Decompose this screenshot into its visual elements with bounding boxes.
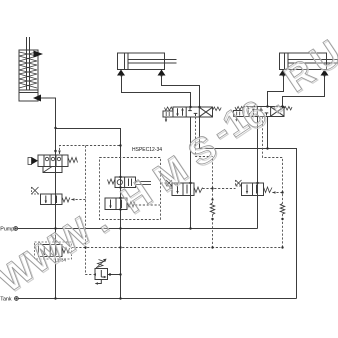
drain arrow below V2 left solenoid <box>235 117 237 122</box>
node valve A inlet <box>54 150 56 152</box>
solenoid (valve V2 left) <box>234 111 244 117</box>
node V1 port B <box>198 106 200 108</box>
orifice (LS section 2) <box>280 204 284 215</box>
svg-text:Tank: Tank <box>0 297 12 303</box>
flow regulator FR (circle valve in manifold) <box>115 177 151 188</box>
svg-text:Pump: Pump <box>0 226 14 232</box>
wire branch to manifold inlet <box>56 129 121 178</box>
junction pump rail / gallery <box>119 227 121 229</box>
dashed pilot network <box>60 117 283 275</box>
spring (lower valve right) <box>127 202 135 208</box>
spring (valve C right) <box>62 248 70 254</box>
junction LS / compensator K2 spring pilot <box>281 191 283 193</box>
port arrow (cylinder CYL3 right) <box>321 70 329 76</box>
tank port symbol <box>15 297 19 301</box>
node compensator K1 top port <box>189 182 191 184</box>
LS jog valve V2 <box>263 117 283 204</box>
LS jog valve V1 <box>196 117 213 203</box>
valve C (LS unloading valve, bottom-left) <box>39 245 63 257</box>
junction relief output <box>109 273 111 275</box>
cylinder CYL2 (horizontal, top-middle) <box>118 53 177 70</box>
wire V2 P-port through compensator K2 to pump rail <box>257 117 259 229</box>
port arrow (cylinder CYL1 bottom) <box>33 95 41 102</box>
dashed enclosure (valve C) <box>35 242 72 259</box>
spring (valve V1 left) <box>165 107 174 111</box>
junction LS bus / gallery <box>119 246 121 248</box>
spring (valve A right) <box>68 158 78 163</box>
watermark WWW.HMS-16.RU <box>0 32 338 301</box>
main vertical line (manifold P/T gallery) <box>120 177 122 299</box>
node flow regulator bottom port <box>119 186 121 188</box>
junction LS / compensator pilot <box>211 187 213 189</box>
junction pump rail / inlet line <box>54 227 56 229</box>
cylinder CYL3 (horizontal, top-right) <box>280 53 338 70</box>
pilot X bracket (valve B) <box>32 187 41 194</box>
pilot X bracket (compensator K2) <box>236 180 242 186</box>
spring (compensator K2 right) <box>264 187 273 193</box>
port arrow (cylinder CYL1 top) <box>34 51 44 58</box>
junction tank rail / inlet line <box>54 297 56 299</box>
node CYL3 rod port <box>323 74 325 76</box>
pilot line left vertical <box>86 146 94 275</box>
valve V2 (4/3 solenoid directional valve, section 2) <box>244 107 284 117</box>
pump rail <box>18 228 258 230</box>
node V1 port A <box>189 106 191 108</box>
wire CYL3 B-port to valve V2 <box>283 76 325 107</box>
cylinder CYL1 (vertical, top-left) <box>19 37 38 101</box>
wire V1 P-port through compensator K1 to pump rail <box>190 117 192 229</box>
pilot X bracket (compensator K1) <box>166 180 172 186</box>
valve V1 (4/3 solenoid directional valve, section 1) <box>173 107 213 117</box>
wire CYL3 A-port to valve V2 <box>268 76 284 107</box>
svg-text:HSPEC12-34: HSPEC12-34 <box>132 147 162 153</box>
spring (valve V2 left) <box>235 107 244 111</box>
solenoid (valve V1 left) <box>163 111 173 117</box>
port arrow (cylinder CYL2 left) <box>117 70 125 76</box>
pilot comp K1 to comp K2 <box>203 188 236 190</box>
junction LS section1 lower <box>211 218 213 220</box>
spring (valve B right) <box>62 197 70 202</box>
junction LS section2 lower <box>281 218 283 220</box>
tank rail <box>19 298 297 300</box>
LS line section1 lower <box>212 215 214 248</box>
wire V1 T-port to tank header <box>200 117 297 299</box>
valve B (inlet 2-way valve) <box>41 194 63 205</box>
port arrow (cylinder CYL3 left) <box>279 70 287 76</box>
pilot lower valve LV to box edge <box>135 204 160 206</box>
node lower valve bottom port <box>119 208 121 210</box>
manifold dashed box A <box>100 158 161 220</box>
compensator K2 (section 2) <box>242 183 264 196</box>
drain (relief valve) <box>95 280 102 285</box>
port arrow (cylinder CYL2 right) <box>158 70 166 76</box>
node V2 port A <box>266 105 268 107</box>
wire CYL2 A-port to valve V1 <box>122 76 191 108</box>
node flow regulator top port <box>119 176 121 178</box>
junction LS bus end / section2 LS <box>281 246 283 248</box>
node CYL2 rod port <box>160 74 162 76</box>
compensator K1 (section 1) <box>172 183 194 196</box>
node lower valve top port <box>119 197 121 199</box>
junction pilot / inlet gallery <box>119 144 121 146</box>
LS bus <box>72 247 283 249</box>
spring and adjuster (relief valve top) <box>96 259 107 268</box>
spring (valve V2 right) <box>284 107 293 111</box>
spring (flow regulator left) <box>108 179 116 184</box>
lower valve LV (manifold pressure valve) <box>105 198 127 210</box>
pilot arrowheads <box>54 151 275 276</box>
wire CYL2 B-port to valve V1 <box>162 76 200 108</box>
valve A (inlet proportional valve) <box>28 155 68 173</box>
junction tank rail / gallery <box>119 297 121 299</box>
LS line section2 lower <box>282 214 284 248</box>
node CYL2 cap port <box>120 74 122 76</box>
main vertical line (inlet) <box>55 98 57 299</box>
spring (valve V1 right) <box>213 107 222 111</box>
wire cylinder CYL1 to node <box>41 98 56 128</box>
drain arrow below V1 left solenoid <box>165 117 167 122</box>
junction relief output / gallery <box>119 273 121 275</box>
pilot into comp K2 spring <box>273 192 283 194</box>
wire relief valve to gallery <box>108 274 121 276</box>
pump port symbol <box>14 227 18 231</box>
node compensator K2 top port <box>256 182 258 184</box>
wire V2 T-port <box>267 117 269 149</box>
spring (compensator K1 right) <box>194 187 203 193</box>
junction pump rail / section1 P <box>189 227 191 229</box>
node V2 port B <box>281 105 283 107</box>
pilot comp K1 X to box A <box>161 182 167 184</box>
relief valve RV <box>95 269 108 280</box>
orifice (LS section 1) <box>210 203 214 215</box>
node CYL3 cap port <box>282 74 284 76</box>
junction LS bus / section1 LS <box>211 246 213 248</box>
pilot arrow line into valve B <box>71 199 86 201</box>
junction LS section1 upper <box>211 198 213 200</box>
junction LS bus / pilot vertical <box>84 246 86 248</box>
junction T header / V2 T-port <box>266 147 268 149</box>
junction cylinder CYL1 branch <box>54 127 56 129</box>
pilot line inlet top <box>60 146 121 155</box>
